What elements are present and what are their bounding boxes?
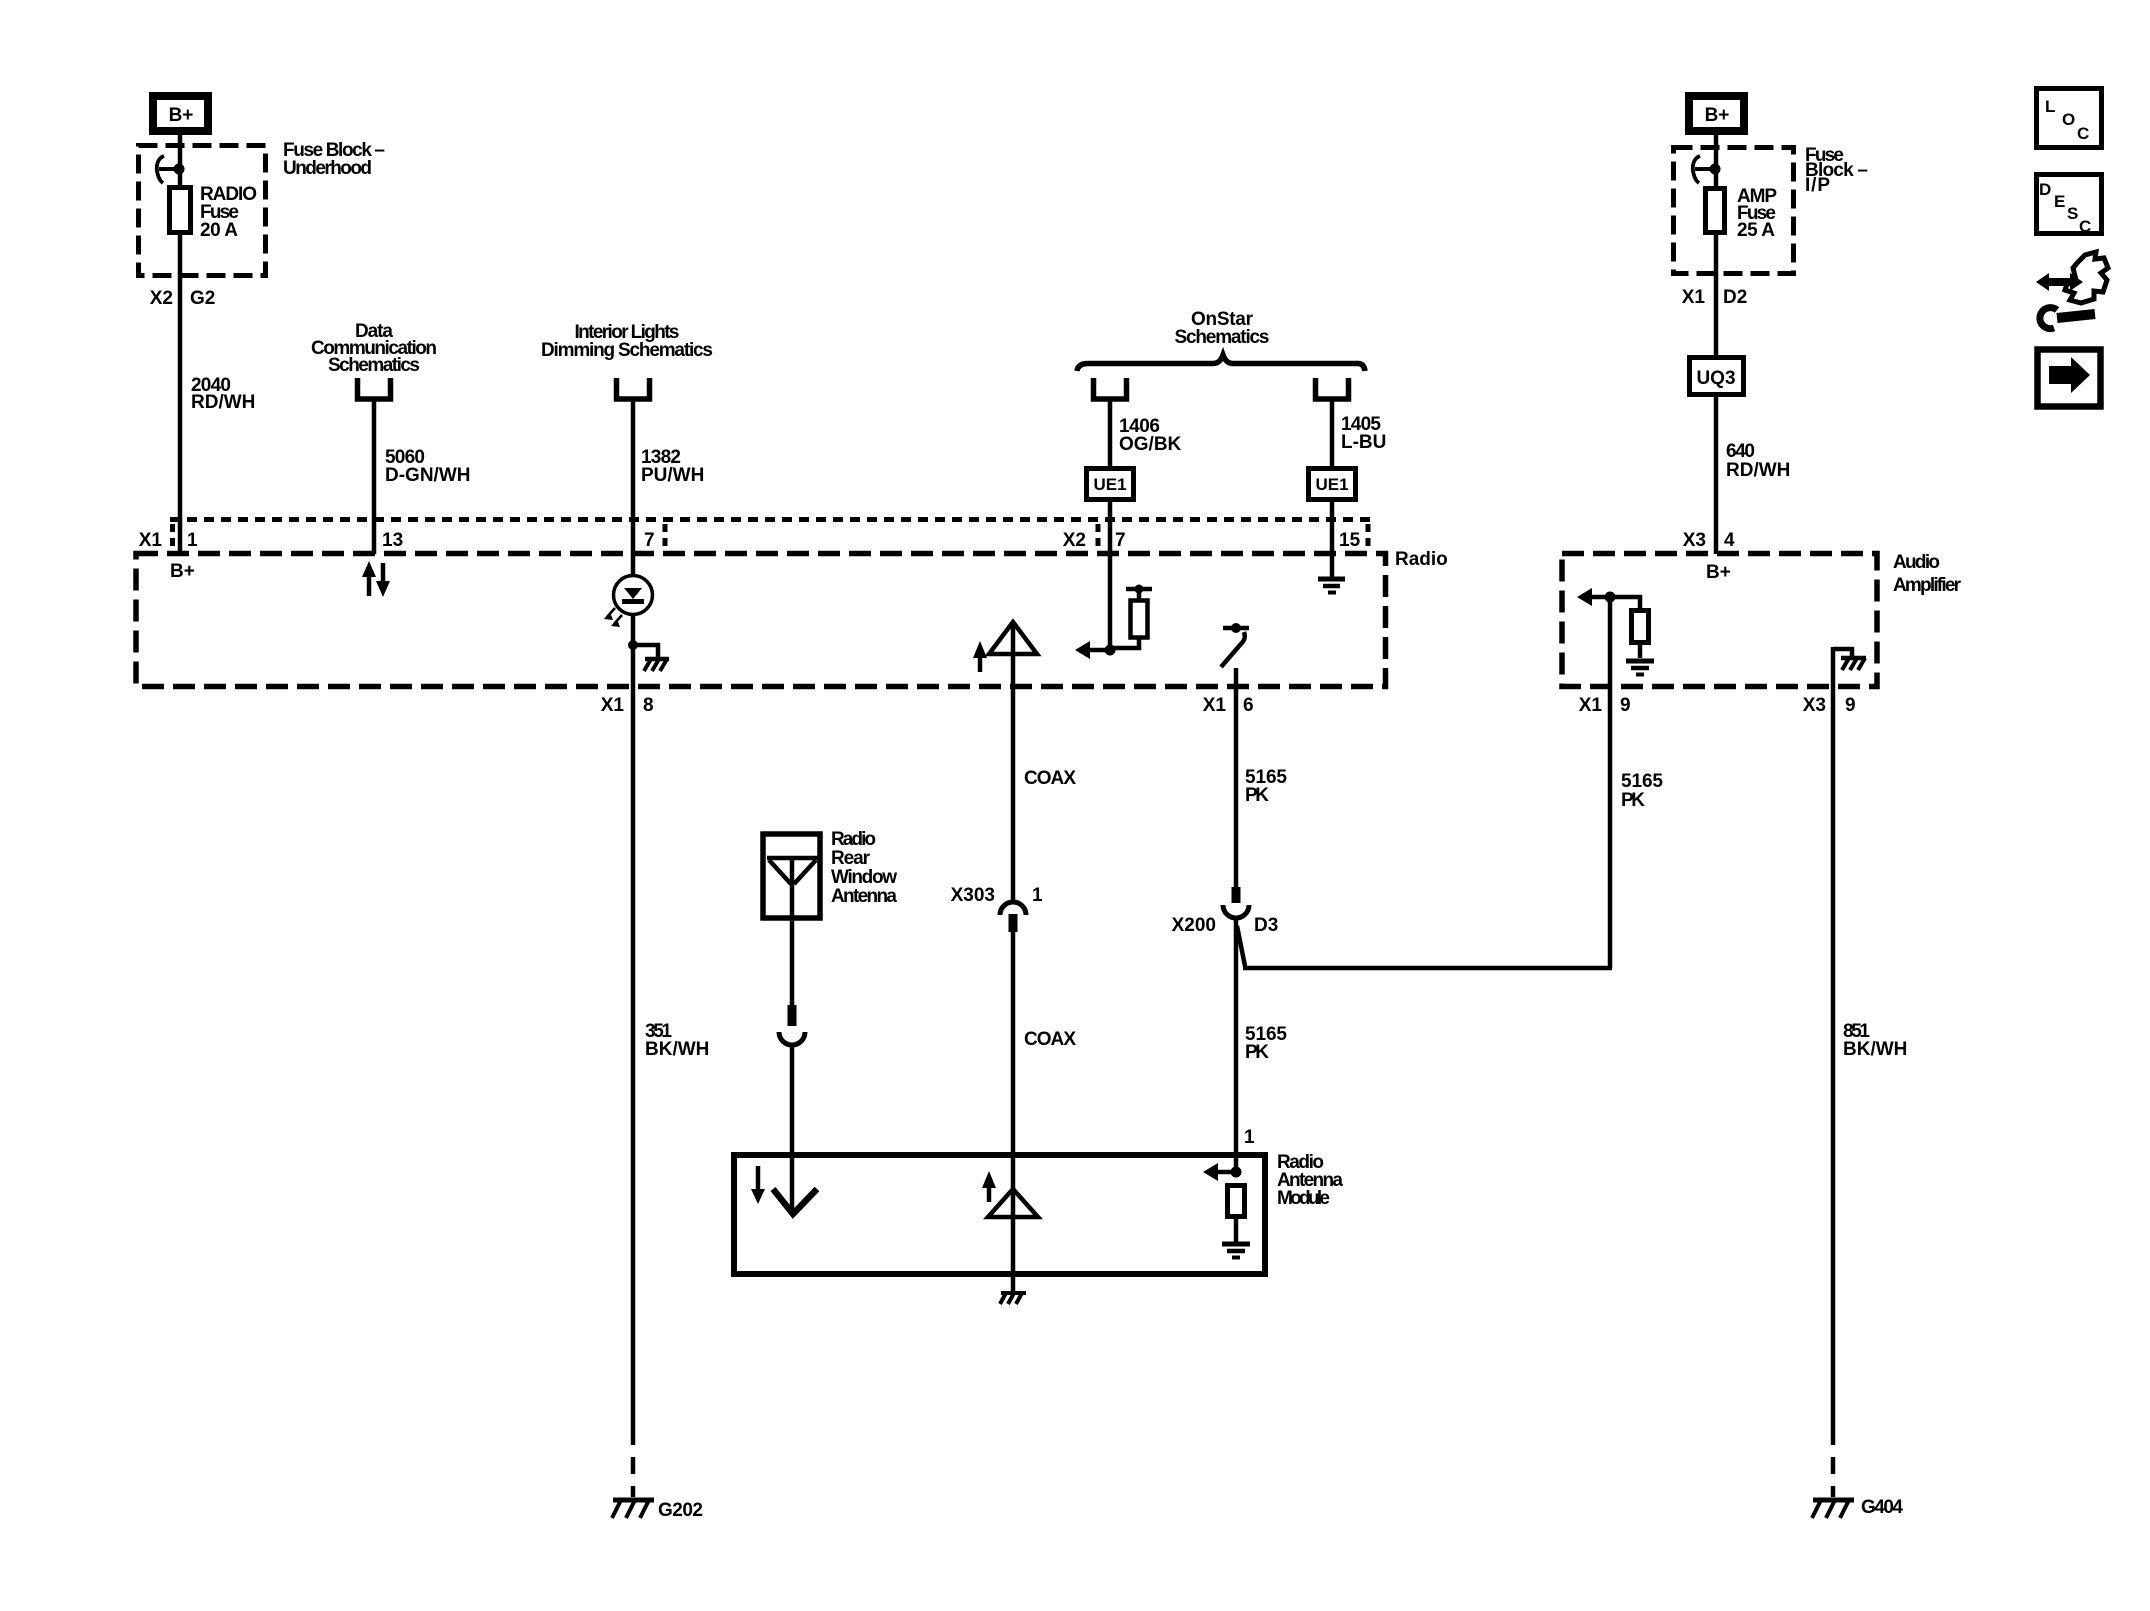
svg-text:C: C (2079, 217, 2091, 236)
svg-text:B+: B+ (1705, 105, 1730, 126)
svg-text:9: 9 (1620, 695, 1631, 716)
svg-text:UQ3: UQ3 (1696, 368, 1735, 389)
svg-text:X1: X1 (601, 695, 625, 716)
svg-text:PK: PK (1245, 1042, 1269, 1063)
svg-text:D2: D2 (1723, 287, 1747, 308)
svg-text:1: 1 (187, 530, 198, 551)
svg-text:7: 7 (644, 530, 655, 551)
svg-text:BK/WH: BK/WH (645, 1039, 709, 1060)
svg-text:X303: X303 (951, 885, 995, 906)
svg-text:O: O (2062, 110, 2075, 129)
svg-text:S: S (2067, 204, 2078, 223)
svg-text:Module: Module (1277, 1188, 1330, 1209)
svg-text:X2: X2 (1063, 530, 1086, 551)
svg-text:X1: X1 (1579, 695, 1603, 716)
svg-text:640: 640 (1726, 441, 1755, 462)
svg-text:I/P: I/P (1805, 175, 1830, 196)
svg-text:OG/BK: OG/BK (1119, 434, 1182, 455)
svg-text:PK: PK (1621, 790, 1645, 811)
svg-text:9: 9 (1845, 695, 1856, 716)
svg-text:Rear: Rear (831, 848, 871, 869)
svg-text:7: 7 (1115, 530, 1126, 551)
svg-text:B+: B+ (1706, 562, 1731, 583)
svg-text:B+: B+ (169, 105, 194, 126)
svg-text:X200: X200 (1172, 915, 1216, 936)
svg-text:Schematics: Schematics (328, 355, 420, 376)
svg-text:PK: PK (1245, 785, 1269, 806)
svg-text:15: 15 (1339, 530, 1361, 551)
svg-text:L: L (2045, 97, 2055, 116)
svg-text:X1: X1 (1682, 287, 1706, 308)
svg-text:BK/WH: BK/WH (1843, 1039, 1907, 1060)
svg-text:G202: G202 (658, 1500, 703, 1521)
svg-text:RD/WH: RD/WH (1726, 460, 1790, 481)
svg-text:COAX: COAX (1024, 1029, 1076, 1050)
svg-text:Underhood: Underhood (283, 158, 372, 179)
svg-text:G2: G2 (190, 288, 215, 309)
svg-text:Audio: Audio (1893, 552, 1940, 573)
svg-text:D: D (2039, 180, 2051, 199)
svg-text:X3: X3 (1803, 695, 1826, 716)
svg-text:Antenna: Antenna (831, 886, 897, 907)
svg-text:D3: D3 (1254, 915, 1278, 936)
svg-text:C: C (2077, 124, 2089, 143)
svg-text:Radio: Radio (831, 829, 876, 850)
svg-text:Amplifier: Amplifier (1893, 575, 1962, 596)
svg-text:20 A: 20 A (200, 220, 238, 241)
svg-text:X2: X2 (150, 288, 173, 309)
svg-text:X1: X1 (1203, 695, 1227, 716)
svg-text:E: E (2054, 192, 2065, 211)
svg-text:Dimming Schematics: Dimming Schematics (541, 340, 713, 361)
svg-text:25 A: 25 A (1737, 220, 1775, 241)
svg-text:13: 13 (382, 530, 403, 551)
svg-text:UE1: UE1 (1093, 475, 1126, 494)
svg-text:4: 4 (1724, 530, 1735, 551)
svg-text:UE1: UE1 (1315, 475, 1348, 494)
svg-text:G404: G404 (1861, 1497, 1903, 1518)
svg-text:Radio: Radio (1395, 549, 1448, 570)
svg-text:Window: Window (831, 867, 897, 888)
svg-text:COAX: COAX (1024, 768, 1076, 789)
svg-text:D-GN/WH: D-GN/WH (385, 465, 470, 486)
svg-text:X3: X3 (1683, 530, 1706, 551)
svg-text:8: 8 (643, 695, 654, 716)
svg-text:B+: B+ (170, 561, 195, 582)
svg-text:1: 1 (1244, 1127, 1255, 1148)
svg-text:Schematics: Schematics (1175, 327, 1270, 348)
svg-text:5165: 5165 (1621, 771, 1663, 792)
svg-text:X1: X1 (139, 530, 163, 551)
svg-text:L-BU: L-BU (1341, 432, 1386, 453)
svg-text:1: 1 (1032, 885, 1043, 906)
svg-text:PU/WH: PU/WH (641, 465, 704, 486)
svg-text:6: 6 (1243, 695, 1254, 716)
svg-text:RD/WH: RD/WH (191, 392, 255, 413)
